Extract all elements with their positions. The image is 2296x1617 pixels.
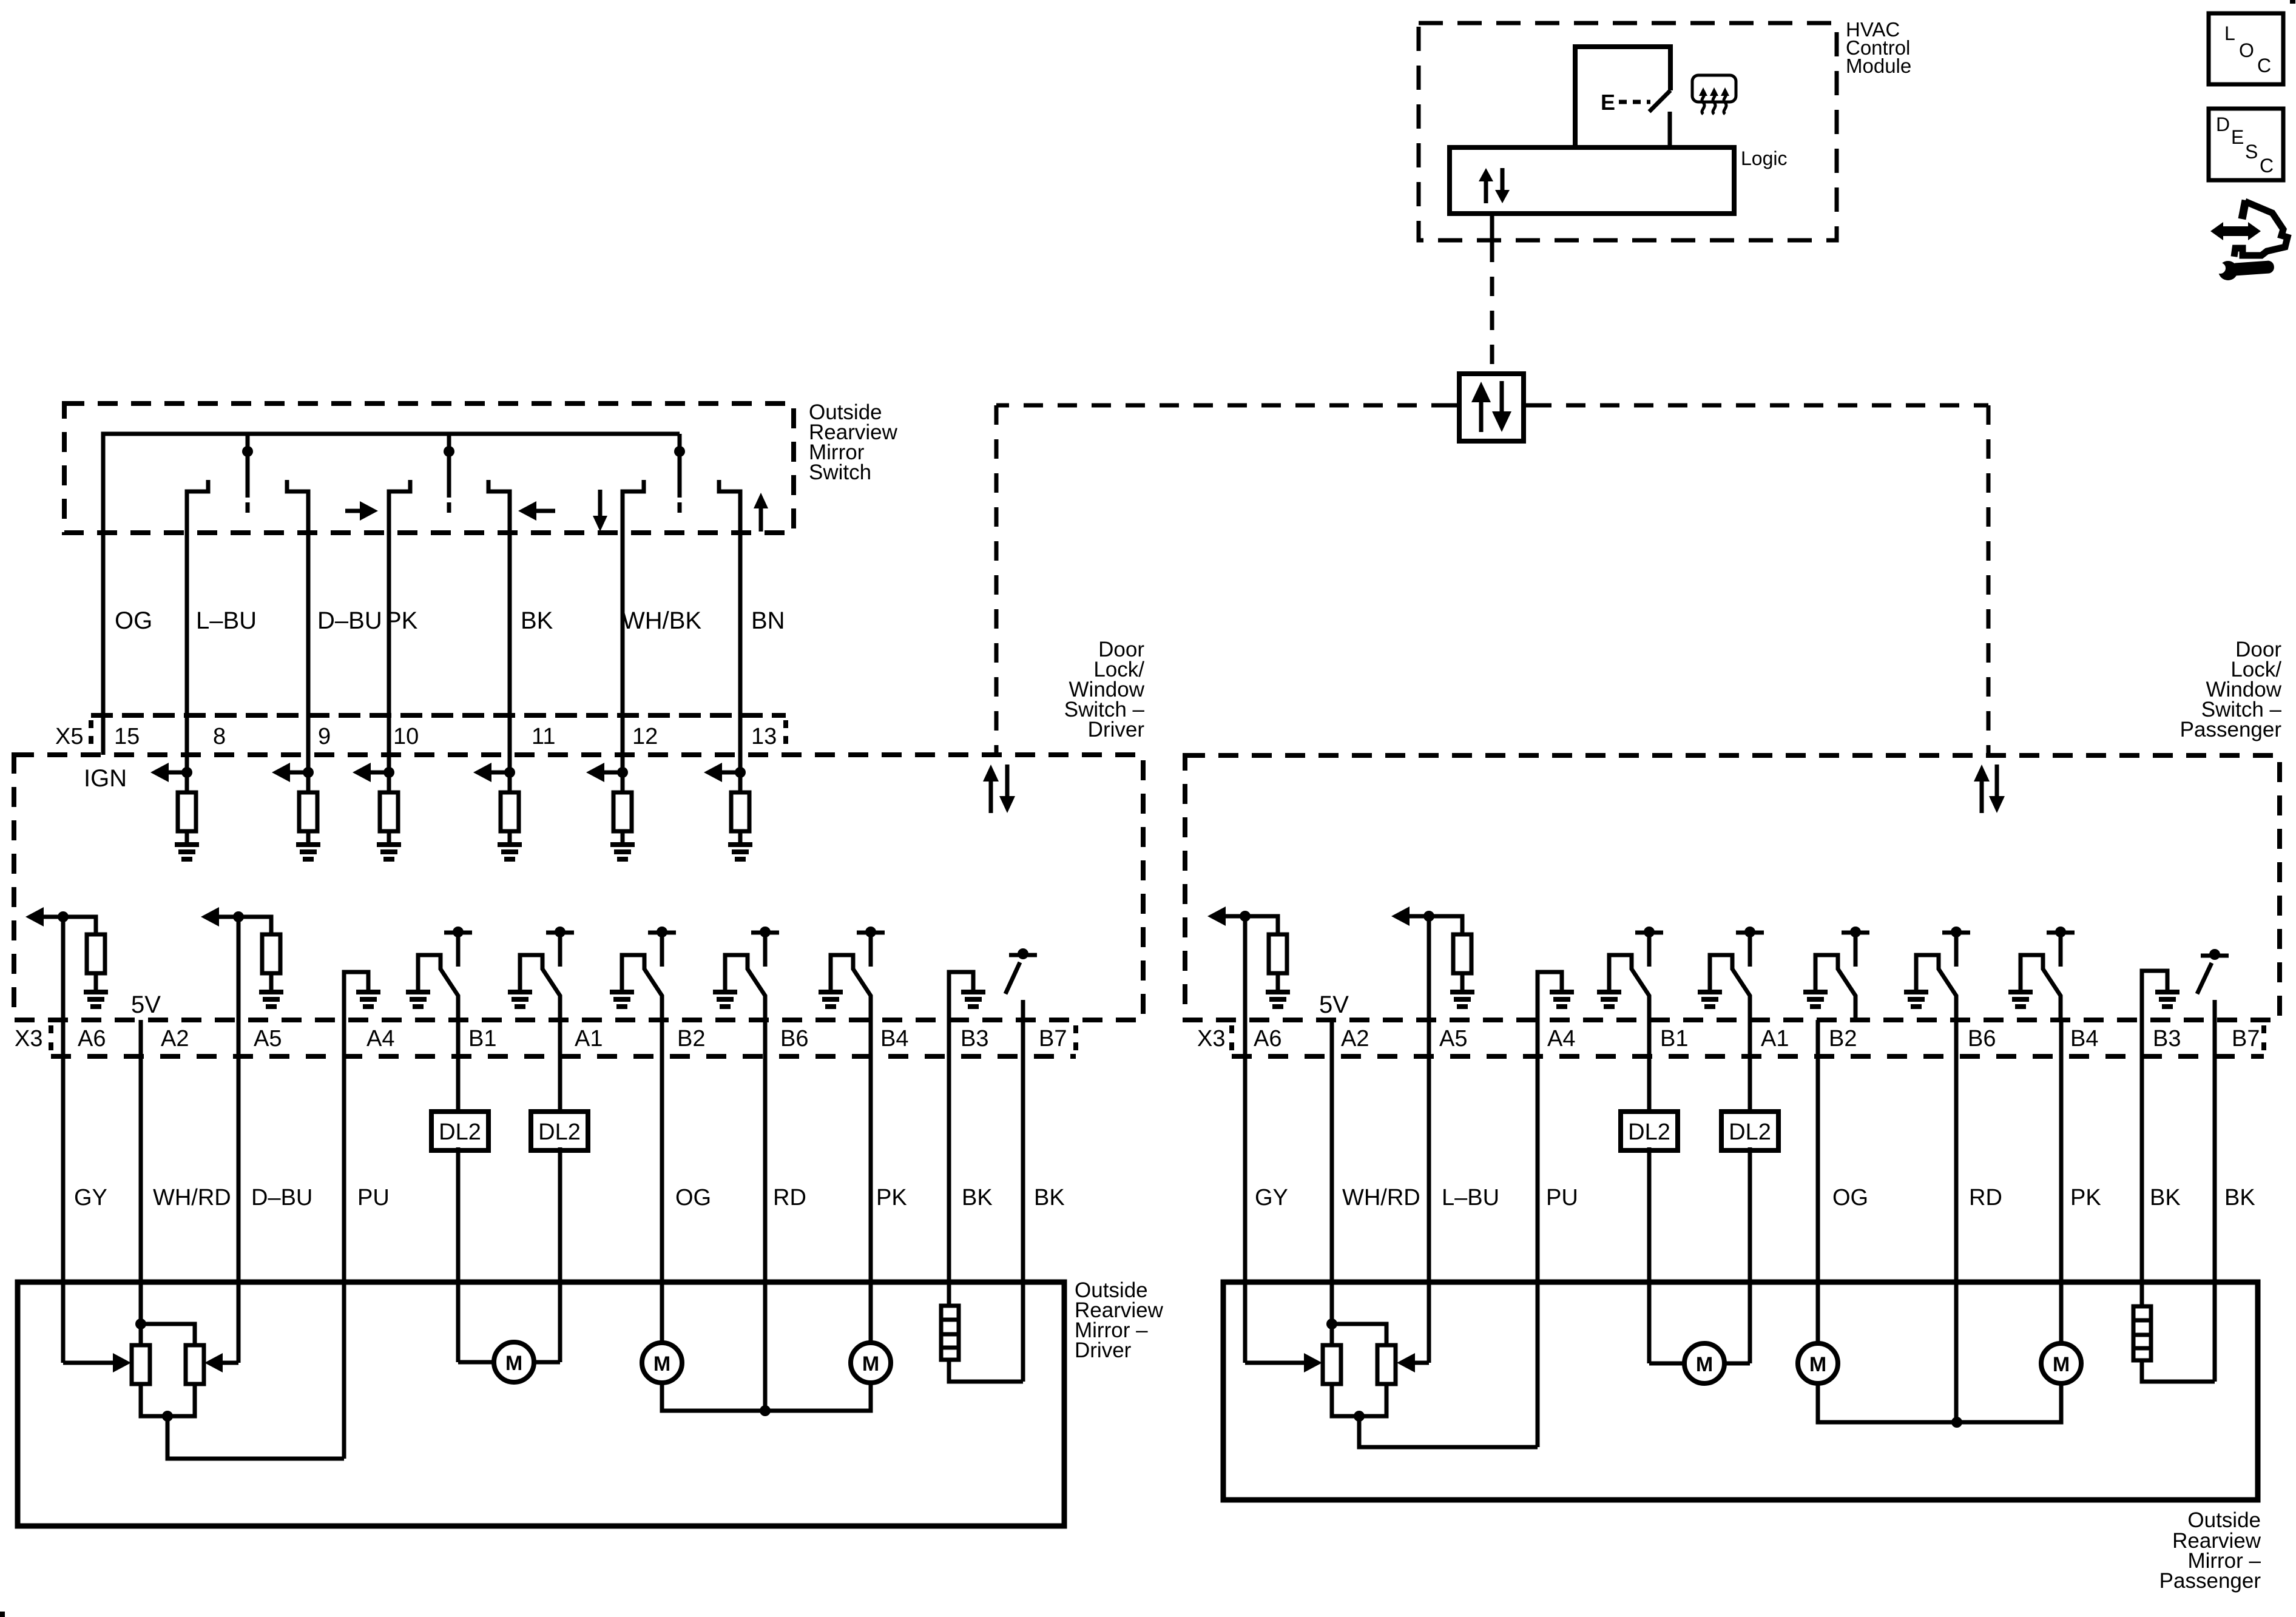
svg-text:S: S — [2245, 141, 2258, 163]
switch B1 upper contact — [444, 927, 472, 967]
svg-text:M: M — [862, 1352, 879, 1376]
A5 branch to resistor — [238, 917, 271, 934]
wire A5 D-BU — [237, 917, 241, 1363]
wire A4 PU — [342, 1020, 346, 1459]
switch lower contact — [1668, 112, 1672, 147]
svg-text:OG: OG — [115, 607, 152, 634]
A4 passenger ground — [1550, 990, 1574, 1009]
svg-text:B1: B1 — [468, 1026, 496, 1052]
ground x508 — [296, 842, 320, 862]
wire B7 BK — [1021, 1020, 1025, 1382]
wire x1026 switch to driver module — [621, 493, 625, 792]
svg-text:13: 13 — [751, 724, 777, 749]
A6 passenger sense junction — [1240, 911, 1251, 922]
A5 passenger ground — [1450, 990, 1474, 1009]
svg-text:5V: 5V — [1319, 991, 1349, 1018]
svg-text:15: 15 — [114, 724, 140, 749]
connector X3 passenger bottom line — [1232, 1054, 2264, 1059]
svg-text:A1: A1 — [1761, 1026, 1789, 1052]
junction pin wire x641 — [383, 767, 394, 778]
dashed wire to passenger switch — [1532, 403, 1988, 408]
svg-text:WH/RD: WH/RD — [153, 1185, 231, 1210]
svg-text:X5: X5 — [55, 724, 83, 749]
switch B2 ground — [610, 990, 634, 1009]
position sensor resistor left passenger — [1323, 1345, 1341, 1384]
switch B1 passenger switch blade — [1609, 955, 1649, 1020]
pin 10 contact — [389, 480, 410, 495]
switch B2 passenger switch blade — [1815, 955, 1855, 1020]
wire from logic box — [1490, 214, 1494, 243]
common contact 3 — [674, 434, 685, 513]
mirror down arrow — [593, 516, 607, 532]
common contact 2 — [444, 434, 454, 513]
switch B4 switch blade — [831, 955, 871, 1020]
sensor wiper wire — [167, 1416, 344, 1459]
wire A1 lower — [558, 1147, 562, 1362]
arrow into module x1220 — [704, 763, 722, 782]
svg-text:Passenger: Passenger — [2180, 718, 2282, 741]
ground x1220 — [728, 842, 752, 862]
svg-text:B2: B2 — [677, 1026, 705, 1052]
sensor left link passenger — [1330, 1324, 1334, 1345]
svg-text:BK: BK — [2224, 1185, 2255, 1210]
junction pin wire x308 — [181, 767, 192, 778]
connector X5 left cap — [89, 720, 93, 751]
resistor x508 — [299, 792, 317, 831]
mirror heater element passenger — [2133, 1306, 2151, 1360]
wire B3 BK — [947, 1020, 951, 1306]
svg-text:M: M — [1696, 1353, 1713, 1376]
A5 sense junction — [233, 911, 244, 922]
mirror position sensor junction passenger — [1326, 1318, 1337, 1329]
switch B6 passenger ground — [1904, 990, 1928, 1009]
GY arrow into sensor passenger — [1304, 1353, 1322, 1372]
switch B4 upper contact — [857, 927, 885, 967]
DL2 connector B1 — [431, 1112, 488, 1150]
svg-text:B4: B4 — [880, 1026, 908, 1052]
door lock window switch driver box — [14, 755, 1143, 1020]
switch B7 wire — [1021, 1000, 1025, 1020]
wire A2 WH/RD — [139, 1020, 143, 1324]
down arrow in logic box — [1495, 190, 1510, 203]
connector box stubs — [1451, 403, 1459, 408]
switch B7 passenger blade — [2197, 963, 2212, 994]
wire B6 RD passenger — [1954, 1020, 1959, 1422]
B3 ground hook — [949, 972, 973, 1020]
svg-text:B6: B6 — [1968, 1026, 1996, 1052]
svg-text:B3: B3 — [2153, 1026, 2181, 1052]
motor M2 passenger — [1798, 1343, 1838, 1383]
svg-text:A1: A1 — [575, 1026, 603, 1052]
arrow into module x1026 — [586, 763, 604, 782]
sensor top link — [141, 1324, 195, 1345]
position sensor resistor left — [132, 1345, 150, 1384]
svg-text:RD: RD — [1969, 1185, 2002, 1210]
wire B4 PK — [869, 1020, 873, 1343]
arrow into module x308 — [150, 763, 169, 782]
switch blade — [1649, 90, 1670, 112]
pin 9 contact — [287, 480, 308, 495]
svg-text:L–BU: L–BU — [1442, 1185, 1499, 1210]
svg-text:PK: PK — [2070, 1185, 2101, 1210]
switch B2 passenger upper contact — [1842, 927, 1869, 967]
svg-text:B7: B7 — [1039, 1026, 1067, 1052]
position sensor resistor right passenger — [1377, 1345, 1396, 1384]
switch A1 passenger upper contact — [1736, 927, 1764, 967]
mirror heater switch box in HVAC module — [1575, 47, 1670, 147]
svg-text:RD: RD — [773, 1185, 806, 1210]
switch B4 passenger switch blade — [2021, 955, 2061, 1020]
junction pin wire x840 — [504, 767, 515, 778]
A6 ground — [84, 990, 108, 1009]
svg-text:BK: BK — [521, 607, 553, 634]
wire B1 lower passenger — [1647, 1147, 1652, 1363]
A6 passenger resistor — [1269, 934, 1287, 973]
switch dashed actuator line — [1619, 100, 1650, 104]
sensor wiper junction passenger — [1354, 1411, 1365, 1422]
svg-text:M: M — [2053, 1353, 2070, 1376]
svg-text:M: M — [1809, 1353, 1826, 1376]
dashed wire down to driver switch box — [994, 405, 999, 756]
wire B4 PK passenger — [2059, 1020, 2064, 1343]
svg-text:11: 11 — [532, 724, 555, 749]
wire x508 switch to driver module — [306, 493, 311, 792]
pin 8 contact — [187, 480, 208, 495]
A5 resistor — [262, 934, 280, 973]
A5 passenger resistor — [1453, 934, 1471, 973]
motor M3 — [851, 1343, 891, 1383]
A6 branch to resistor — [63, 917, 96, 934]
svg-text:BN: BN — [751, 607, 785, 634]
A5 arrow into module — [201, 907, 219, 927]
svg-text:OG: OG — [675, 1185, 711, 1210]
switch B2 passenger ground — [1803, 990, 1828, 1009]
door lock window switch passenger box — [1185, 755, 2280, 1020]
switch B1 passenger ground — [1597, 990, 1621, 1009]
down arrow in connector box — [1492, 411, 1511, 432]
up arrow in connector box — [1471, 382, 1491, 402]
svg-text:OG: OG — [1832, 1185, 1868, 1210]
A6 passenger branch to resistor — [1245, 916, 1278, 934]
heater return wire passenger — [2142, 1360, 2215, 1382]
B3 passenger ground — [2155, 990, 2180, 1009]
wire x308 switch to driver module — [185, 493, 189, 792]
wire A6 GY passenger — [1243, 916, 1248, 1363]
dashed wire down to passenger switch box — [1987, 405, 1991, 756]
arrow into module x641 — [353, 763, 371, 782]
svg-text:Module: Module — [1846, 55, 1911, 77]
DL2 connector A1 passenger — [1721, 1112, 1778, 1150]
wire A2 WH/RD passenger — [1330, 1020, 1334, 1324]
svg-text:Driver: Driver — [1075, 1338, 1132, 1362]
wire A1 passenger — [1748, 1020, 1752, 1112]
sensor bottom link — [141, 1384, 195, 1416]
svg-text:WH/RD: WH/RD — [1342, 1185, 1420, 1210]
svg-text:5V: 5V — [131, 991, 161, 1018]
wire B2 OG — [660, 1020, 664, 1343]
svg-text:Logic: Logic — [1741, 147, 1788, 169]
common contact 1 — [242, 434, 253, 513]
pin 11 contact — [488, 480, 510, 495]
svg-text:B2: B2 — [1829, 1026, 1857, 1052]
outside rearview mirror driver box — [18, 1282, 1064, 1526]
svg-text:DL2: DL2 — [1628, 1119, 1670, 1145]
wire B2 OG passenger — [1816, 1020, 1820, 1343]
DL2 connector B1 passenger — [1621, 1112, 1678, 1150]
switch B7 passenger upper contact — [2201, 949, 2229, 960]
svg-text:DL2: DL2 — [538, 1119, 581, 1145]
motor bus junction — [760, 1405, 771, 1416]
svg-text:A4: A4 — [366, 1026, 394, 1052]
switch B1 passenger upper contact — [1635, 927, 1663, 967]
svg-text:L–BU: L–BU — [196, 607, 257, 634]
driver data link down arrow — [999, 796, 1015, 813]
switch supply bus — [103, 434, 680, 755]
svg-text:PU: PU — [1546, 1185, 1578, 1210]
svg-text:DL2: DL2 — [439, 1119, 481, 1145]
connector X5 right cap — [783, 720, 788, 751]
junction pin wire x1220 — [735, 767, 746, 778]
svg-text:L: L — [2224, 22, 2235, 44]
svg-text:B1: B1 — [1660, 1026, 1688, 1052]
wire B6 RD — [763, 1020, 768, 1411]
sensor top link passenger — [1332, 1324, 1386, 1345]
svg-text:GY: GY — [1255, 1185, 1288, 1210]
svg-text:8: 8 — [213, 724, 226, 749]
mirror position sensor junction — [135, 1318, 146, 1329]
svg-text:X3: X3 — [1197, 1026, 1225, 1052]
resistor x641 — [380, 792, 398, 831]
connector X3 passenger right cap — [2261, 1025, 2266, 1053]
mirror select left arrow — [518, 501, 536, 521]
A5 ground — [259, 990, 283, 1009]
svg-text:B6: B6 — [780, 1026, 808, 1052]
switch B4 passenger ground — [2008, 990, 2033, 1009]
up arrow in logic box — [1479, 168, 1493, 181]
wire A1 — [558, 1020, 562, 1112]
svg-text:10: 10 — [393, 724, 419, 749]
svg-text:PK: PK — [876, 1185, 907, 1210]
wire B7 BK passenger — [2213, 1020, 2217, 1382]
svg-text:E: E — [2231, 126, 2244, 148]
DESC box — [2209, 109, 2283, 180]
A4 passenger ground hook — [1538, 972, 1562, 1020]
svg-text:BK: BK — [962, 1185, 993, 1210]
svg-text:B7: B7 — [2232, 1026, 2260, 1052]
sensor wiper junction — [162, 1411, 173, 1422]
switch B6 upper contact — [751, 927, 779, 967]
GY arrow into sensor — [113, 1353, 131, 1372]
wire A6 GY — [61, 917, 66, 1363]
sensor bottom link passenger — [1332, 1384, 1386, 1416]
resistor x1026 — [613, 792, 632, 831]
svg-text:IGN: IGN — [84, 765, 127, 792]
motor M3 passenger — [2041, 1343, 2081, 1383]
data link connector box — [1459, 374, 1524, 441]
L-BU arrow into sensor passenger — [1397, 1353, 1415, 1372]
connector X3 driver bottom line — [51, 1054, 1076, 1059]
pin 12 contact — [623, 480, 644, 495]
A6 passenger arrow into module — [1207, 906, 1226, 926]
switch B7 upper contact — [1009, 948, 1037, 959]
wire B1 — [456, 1020, 461, 1112]
page artifact top right — [2290, 0, 2295, 4]
switch A1 passenger switch blade — [1710, 955, 1750, 1020]
svg-text:C: C — [2260, 155, 2274, 177]
A6 sense junction — [58, 911, 69, 922]
switch B6 ground — [713, 990, 737, 1009]
sensor left link — [139, 1324, 143, 1345]
wire B1 lower — [456, 1147, 461, 1362]
outside rearview mirror passenger box — [1223, 1282, 2258, 1500]
A4 ground hook — [344, 972, 368, 1020]
passenger data link down arrow — [1989, 796, 2005, 813]
outside rearview mirror switch box — [64, 403, 794, 533]
svg-text:M: M — [505, 1352, 522, 1375]
svg-text:B3: B3 — [961, 1026, 988, 1052]
A6 arrow into module — [25, 907, 44, 927]
arrow into module x508 — [272, 763, 290, 782]
svg-text:C: C — [2257, 55, 2271, 76]
mirror up arrow — [754, 493, 768, 508]
svg-text:12: 12 — [632, 724, 658, 749]
junction pin wire x1026 — [617, 767, 628, 778]
svg-text:X3: X3 — [15, 1026, 42, 1052]
driver data link up arrow — [983, 765, 999, 781]
logic box — [1450, 147, 1734, 214]
svg-text:A2: A2 — [161, 1026, 189, 1052]
dashed wire to driver switch — [996, 403, 1451, 408]
LOC box — [2209, 13, 2283, 84]
resistor x308 — [178, 792, 196, 831]
svg-text:A5: A5 — [1439, 1026, 1467, 1052]
A5 passenger branch to resistor — [1429, 916, 1462, 934]
ground x641 — [377, 842, 401, 862]
A4 ground — [356, 990, 380, 1009]
svg-text:A6: A6 — [1254, 1026, 1281, 1052]
svg-text:M: M — [653, 1352, 670, 1376]
wire A1 lower passenger — [1748, 1147, 1752, 1363]
passenger data link up arrow — [1974, 765, 1990, 781]
mirror heater element driver — [941, 1306, 959, 1360]
svg-text:A5: A5 — [254, 1026, 282, 1052]
heater return wire driver — [949, 1360, 1023, 1382]
switch A1 switch blade — [520, 955, 560, 1020]
svg-text:B4: B4 — [2070, 1026, 2098, 1052]
svg-text:BK: BK — [1034, 1185, 1065, 1210]
svg-text:E: E — [1601, 90, 1615, 115]
A5 passenger arrow into module — [1391, 906, 1410, 926]
ground x308 — [175, 842, 199, 862]
switch B1 ground — [406, 990, 430, 1009]
motor bus junction passenger — [1951, 1417, 1962, 1428]
svg-text:A4: A4 — [1547, 1026, 1575, 1052]
svg-text:A2: A2 — [1341, 1026, 1369, 1052]
svg-text:D: D — [2216, 113, 2230, 135]
D-BU arrow into sensor — [204, 1353, 223, 1372]
connector X5 line — [91, 713, 786, 718]
GY wire elbow — [61, 1360, 66, 1363]
svg-text:O: O — [2239, 39, 2254, 61]
A6 passenger ground — [1266, 990, 1290, 1009]
A6 resistor — [87, 934, 105, 973]
switch B6 passenger upper contact — [1942, 927, 1970, 967]
switch B2 switch blade — [622, 955, 662, 1020]
dashed wire HVAC to connector — [1490, 243, 1494, 374]
connector X3 driver right cap — [1073, 1025, 1078, 1053]
svg-text:BK: BK — [2150, 1185, 2181, 1210]
wire x641 switch to driver module — [387, 493, 391, 792]
wire x840 switch to driver module — [508, 493, 512, 792]
ground x1026 — [610, 842, 635, 862]
switch B4 passenger upper contact — [2047, 927, 2075, 967]
svg-text:D–BU: D–BU — [251, 1185, 312, 1210]
svg-text:WH/BK: WH/BK — [622, 607, 701, 634]
position sensor resistor right — [186, 1345, 204, 1384]
switch B6 switch blade — [725, 955, 765, 1020]
switch B7 blade — [1005, 962, 1020, 994]
page artifact bottom left — [0, 1612, 5, 1617]
motor M1 left-right — [458, 1342, 560, 1382]
ground x840 — [498, 842, 522, 862]
arrow into module x840 — [473, 763, 491, 782]
switch B1 switch blade — [418, 955, 458, 1020]
resistor x840 — [501, 792, 519, 831]
motor M2 vertical — [642, 1343, 682, 1383]
connector X3 driver left cap — [49, 1025, 53, 1053]
wire A4 PU passenger — [1536, 1020, 1540, 1447]
wire B1 passenger — [1647, 1020, 1652, 1112]
B3 ground — [961, 990, 985, 1009]
wire B3 BK passenger — [2140, 1020, 2144, 1306]
switch B7 passenger wire — [2213, 1000, 2217, 1020]
switch A1 ground — [508, 990, 532, 1009]
switch B2 upper contact — [648, 927, 676, 967]
switch B6 passenger switch blade — [1916, 955, 1956, 1020]
DL2 connector A1 — [531, 1112, 588, 1150]
svg-text:DL2: DL2 — [1729, 1119, 1771, 1145]
motor bus driver — [662, 1383, 871, 1411]
HVAC Control Module box — [1419, 23, 1837, 240]
mirror select right arrow — [360, 501, 378, 521]
switch A1 upper contact — [546, 927, 574, 967]
sensor wiper wire passenger — [1359, 1416, 1538, 1447]
svg-text:GY: GY — [74, 1185, 107, 1210]
switch A1 passenger ground — [1698, 990, 1722, 1009]
B3 passenger ground hook — [2142, 971, 2167, 1020]
svg-text:PU: PU — [357, 1185, 390, 1210]
svg-text:D–BU: D–BU — [317, 607, 382, 634]
junction pin wire x508 — [303, 767, 314, 778]
service information icon — [2210, 200, 2288, 280]
svg-text:Driver: Driver — [1088, 718, 1145, 741]
wire x1220 switch to driver module — [738, 493, 743, 792]
wire A5 L-BU passenger — [1427, 916, 1431, 1363]
pin 13 contact — [719, 480, 740, 495]
motor M1 passenger — [1649, 1343, 1750, 1383]
A5 passenger sense junction — [1423, 911, 1434, 922]
heated mirror icon — [1692, 75, 1736, 114]
svg-text:A6: A6 — [78, 1026, 106, 1052]
resistor x1220 — [731, 792, 749, 831]
svg-text:Switch: Switch — [809, 461, 871, 484]
svg-text:9: 9 — [318, 724, 331, 749]
motor bus passenger — [1818, 1383, 2061, 1422]
connector X3 passenger left cap — [1229, 1025, 1234, 1053]
svg-text:Passenger: Passenger — [2159, 1569, 2261, 1593]
switch B4 ground — [819, 990, 843, 1009]
D-BU wire elbow — [237, 1360, 241, 1363]
